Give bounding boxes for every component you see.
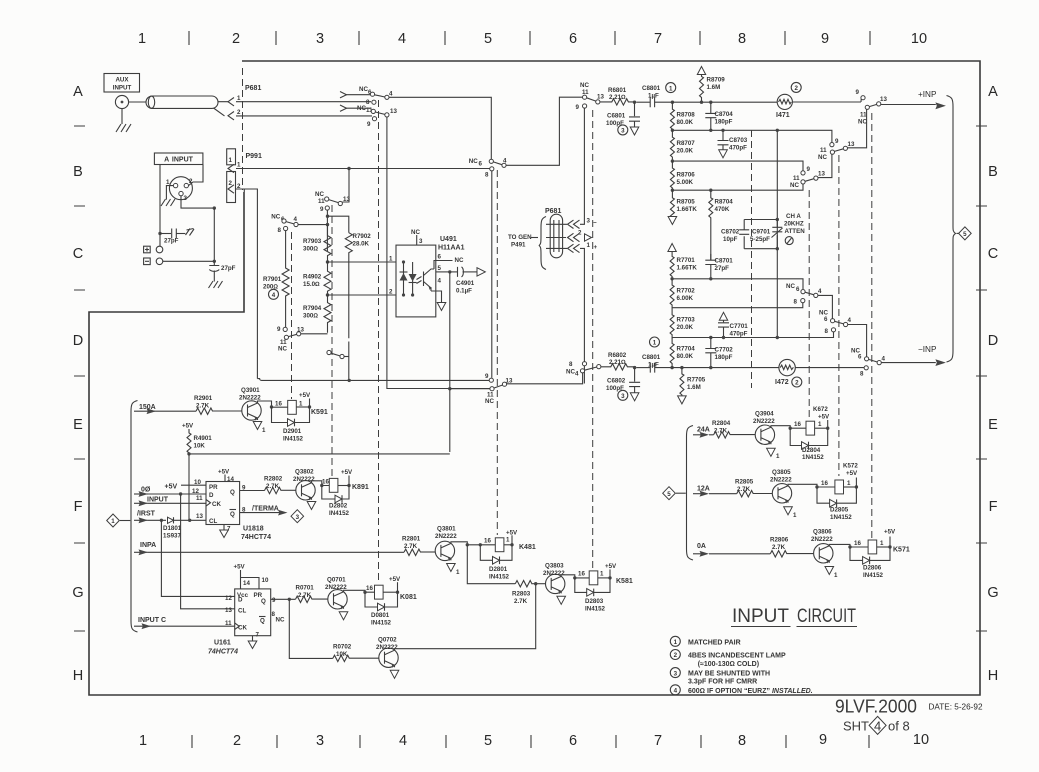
- svg-text:NC: NC: [276, 617, 285, 624]
- BNC connector J (aux input): [115, 95, 145, 108]
- svg-text:9: 9: [367, 121, 371, 128]
- svg-text:A INPUT: A INPUT: [164, 157, 194, 164]
- U161 pin7 ground: [248, 632, 259, 649]
- capacitor C8801 1uF (matched, bottom): [636, 354, 672, 373]
- node top attenuator: [671, 101, 674, 104]
- switch S (tap B, 9/11NC/13): [790, 154, 832, 189]
- svg-text:0A: 0A: [697, 543, 706, 550]
- svg-text:9: 9: [819, 732, 827, 748]
- svg-text:CL: CL: [209, 518, 217, 525]
- diode D2804 IN4152: [790, 428, 828, 461]
- svg-text:470K: 470K: [715, 206, 730, 213]
- P681 pin2 NC: [568, 230, 592, 242]
- capacitor C7702 180pF: [705, 336, 733, 368]
- U491 phototransistor: [417, 269, 435, 291]
- relay actuation dashed line to K081: [378, 100, 380, 584]
- svg-text:+: +: [594, 244, 598, 251]
- svg-text:+5V: +5V: [341, 469, 353, 476]
- resistor R7902 28.0K: [345, 233, 371, 339]
- svg-text:4: 4: [272, 292, 276, 299]
- grid column numbers bottom: [139, 732, 929, 749]
- -INP output arrow: [881, 345, 946, 366]
- capacitor C8702 10pF: [721, 220, 749, 249]
- svg-text:8: 8: [825, 328, 829, 335]
- svg-text:9: 9: [320, 206, 324, 213]
- svg-text:11: 11: [860, 112, 867, 119]
- label U161 74HCT74: [208, 640, 238, 656]
- wire to lamp I472: [672, 367, 779, 369]
- resistor R7705 1.6M to ground: [678, 366, 706, 404]
- svg-text:20KHZ: 20KHZ: [784, 221, 804, 228]
- svg-text:1.66TK: 1.66TK: [677, 206, 698, 213]
- incandescent lamp I472: [709, 359, 795, 386]
- svg-text:8: 8: [366, 99, 370, 106]
- svg-text:1: 1: [653, 340, 657, 347]
- svg-text:2.7K: 2.7K: [404, 543, 418, 550]
- svg-text:IN4152: IN4152: [329, 510, 350, 517]
- svg-text:16: 16: [821, 480, 828, 487]
- capacitor C8801 1uF (matched): [636, 85, 672, 107]
- svg-text:1µF: 1µF: [648, 93, 659, 100]
- ground at Q3801 emitter: [447, 564, 460, 577]
- svg-text:D2901: D2901: [283, 428, 302, 435]
- svg-text:P491: P491: [511, 242, 526, 249]
- capacitor C6802 100pF to ground: [606, 368, 640, 401]
- svg-text:1: 1: [674, 639, 678, 646]
- svg-text:R2803: R2803: [512, 591, 531, 598]
- svg-text:5: 5: [438, 265, 442, 272]
- /TERMA output arrow: [240, 506, 288, 516]
- svg-text:4: 4: [874, 719, 881, 734]
- note flag circled 1 (bottom): [650, 337, 660, 347]
- label TO GEN P491: [508, 234, 538, 249]
- trimmer network C8702/C9701: [744, 218, 779, 251]
- svg-text:5.00K: 5.00K: [677, 179, 694, 186]
- transistor Q3805 2N2222: [770, 469, 792, 503]
- svg-text:6: 6: [858, 354, 862, 361]
- svg-text:1: 1: [776, 453, 780, 460]
- svg-text:U161: U161: [214, 640, 231, 647]
- svg-text:D2805: D2805: [830, 507, 849, 514]
- svg-text:D: D: [73, 333, 83, 349]
- svg-text:U1818: U1818: [243, 526, 264, 533]
- svg-text:16: 16: [484, 538, 491, 545]
- svg-text:2N2222: 2N2222: [293, 476, 315, 483]
- wire XLR pin2 to box: [189, 165, 204, 186]
- svg-text:C8704: C8704: [715, 111, 734, 118]
- svg-text:180pF: 180pF: [715, 119, 733, 126]
- svg-text:R2802: R2802: [264, 476, 283, 483]
- grid tick marks bottom: [192, 735, 869, 748]
- svg-text:1: 1: [793, 512, 797, 519]
- svg-text:K581: K581: [616, 578, 633, 585]
- svg-text:2.21Ω: 2.21Ω: [609, 94, 626, 101]
- svg-text:1: 1: [600, 571, 604, 578]
- svg-text:3: 3: [587, 218, 591, 225]
- ground (chassis) below BNC: [116, 109, 131, 132]
- svg-text:2N2222: 2N2222: [376, 644, 398, 651]
- svg-text:1: 1: [389, 256, 393, 263]
- svg-text:4: 4: [399, 733, 407, 749]
- svg-text:DATE: 5-26-92: DATE: 5-26-92: [929, 703, 983, 712]
- svg-text:+5V: +5V: [605, 563, 617, 570]
- switch S (-side tap D, NC6/4/8): [672, 283, 832, 319]
- svg-text:11: 11: [820, 147, 827, 154]
- relay actuation dashed line to K672: [808, 190, 810, 420]
- svg-text:2: 2: [795, 380, 799, 387]
- svg-text:4: 4: [575, 371, 579, 378]
- svg-text:0.1µF: 0.1µF: [456, 288, 472, 295]
- node R6802/C6802: [633, 366, 636, 369]
- transistor Q3901 2N2222: [239, 387, 261, 421]
- ground at Q3805 emitter: [784, 507, 797, 519]
- resistor R6801 2.21ohm: [600, 87, 636, 105]
- svg-text:9: 9: [272, 597, 276, 604]
- diode D2806 IN4152: [850, 547, 890, 579]
- svg-text:Q3801: Q3801: [437, 526, 456, 533]
- svg-text:R7901: R7901: [263, 276, 282, 283]
- rail to U161 D: [161, 520, 234, 596]
- relay coil K581: [589, 563, 633, 585]
- svg-text:8: 8: [278, 227, 282, 234]
- rail to U161 CL: [181, 494, 235, 609]
- svg-text:K891: K891: [352, 484, 369, 491]
- U491 pin6 NC: [434, 254, 464, 270]
- node line A (80K tap): [671, 129, 832, 143]
- svg-text:1: 1: [847, 480, 851, 487]
- svg-text:20.0K: 20.0K: [677, 148, 694, 155]
- svg-text:4: 4: [848, 317, 852, 324]
- sense flag diamond 5: [957, 227, 972, 240]
- svg-text:16: 16: [366, 585, 373, 592]
- switch S (P681-2 routing): [340, 105, 490, 389]
- note flag circled 3 (bottom): [618, 390, 628, 400]
- svg-text:Q0702: Q0702: [378, 637, 397, 644]
- resistor chain R7903 300ohm: [303, 225, 331, 262]
- relay coil K571: [868, 529, 910, 554]
- svg-text:13: 13: [390, 108, 397, 115]
- svg-text:2.7K: 2.7K: [196, 403, 210, 410]
- svg-text:1: 1: [834, 572, 838, 579]
- svg-text:/TERMA: /TERMA: [252, 506, 279, 513]
- svg-text:2.21Ω: 2.21Ω: [609, 359, 626, 366]
- svg-text:C7702: C7702: [715, 347, 734, 354]
- optocoupler U1491 box: [396, 236, 465, 317]
- svg-text:Q3901: Q3901: [241, 387, 260, 394]
- svg-text:INPUT: INPUT: [147, 497, 169, 504]
- resistor R7901 200ohm: [263, 231, 289, 328]
- resistor R7703 20.0K: [670, 308, 695, 339]
- capacitor C7701 470pF from arrow: [718, 312, 748, 339]
- svg-text:K571: K571: [893, 547, 910, 554]
- resistor R7704 80.0K: [670, 338, 695, 367]
- svg-text:R8707: R8707: [677, 140, 696, 147]
- svg-text:3: 3: [419, 238, 423, 245]
- svg-text:4: 4: [674, 688, 678, 695]
- svg-text:1: 1: [880, 540, 884, 547]
- wire XLR pin3 to shield node: [181, 196, 214, 208]
- svg-text:IN4152: IN4152: [283, 436, 304, 443]
- svg-text:600Ω IF OPTION “EURZ” INSTALL: 600Ω IF OPTION “EURZ” INSTALLED.: [688, 688, 813, 695]
- svg-text:C6801: C6801: [607, 113, 626, 120]
- svg-text:300Ω: 300Ω: [303, 313, 318, 320]
- svg-text:5: 5: [484, 733, 492, 749]
- svg-text:NC: NC: [315, 191, 324, 198]
- svg-text:Q0701: Q0701: [327, 577, 346, 584]
- svg-text:12: 12: [225, 595, 232, 602]
- relay actuation dashed line to K481: [496, 170, 498, 535]
- svg-text:+5V: +5V: [182, 423, 194, 430]
- svg-text:4: 4: [294, 216, 298, 223]
- sense flag diamond 3: [291, 510, 304, 523]
- svg-text:INPUT: INPUT: [113, 85, 132, 92]
- svg-text:D2803: D2803: [585, 598, 604, 605]
- U491 internal LED pair: [400, 260, 417, 296]
- svg-text:3: 3: [674, 670, 678, 677]
- svg-text:1: 1: [587, 242, 591, 249]
- signal 150A input arrow: [134, 404, 196, 414]
- svg-text:NC: NC: [485, 398, 494, 405]
- relay actuation dashed line to K591: [291, 232, 293, 399]
- node R6801/C6801: [633, 101, 636, 104]
- resistor R8707 20.0K: [670, 130, 695, 161]
- svg-text:13: 13: [818, 171, 825, 178]
- flip-flop U1818 74HCT74: [192, 469, 271, 542]
- left signal bundle brace: [131, 401, 138, 633]
- wire Q3904 collector to relay K672: [771, 421, 806, 430]
- svg-text:74HCT74: 74HCT74: [208, 649, 238, 656]
- diode D2803 IN4152: [575, 578, 610, 613]
- transistor Q3802 2N2222: [293, 469, 315, 501]
- svg-text:300Ω: 300Ω: [303, 246, 318, 253]
- svg-text:C8702: C8702: [721, 229, 740, 236]
- svg-text:1: 1: [138, 31, 146, 47]
- capacitor C6801 100pF to ground: [606, 102, 640, 135]
- svg-text:CK: CK: [238, 625, 247, 632]
- svg-text:3.3pF FOR HF CMRR: 3.3pF FOR HF CMRR: [688, 678, 757, 685]
- capacitor C8701 27pF: [705, 254, 733, 279]
- Q output to R2802: [240, 490, 265, 492]
- switch S (P681-1 routing): [340, 86, 491, 159]
- sense flag diamond 5 (left): [663, 487, 686, 500]
- svg-text:R0702: R0702: [333, 644, 352, 651]
- ground at Q3904 emitter: [767, 448, 780, 460]
- diode D2801 IN4152: [480, 545, 512, 581]
- terminal +: [144, 246, 163, 253]
- svg-text:1N4152: 1N4152: [802, 454, 824, 461]
- svg-text:16: 16: [322, 479, 329, 486]
- svg-text:INPUT: INPUT: [732, 605, 789, 627]
- svg-text:9LVF.2000: 9LVF.2000: [835, 697, 917, 717]
- ground at Q0702 emitter: [390, 670, 399, 678]
- svg-text:R7904: R7904: [303, 305, 322, 312]
- svg-text:10: 10: [911, 31, 927, 47]
- svg-text:2.7K: 2.7K: [266, 483, 280, 490]
- svg-text:1: 1: [506, 537, 510, 544]
- svg-text:R7702: R7702: [677, 288, 696, 295]
- switch S (-INP select, NC6/4/8): [795, 348, 885, 378]
- node line B (20K tap): [671, 159, 803, 170]
- +INP output arrow: [881, 90, 946, 109]
- svg-text:B: B: [988, 164, 998, 180]
- svg-text:8: 8: [569, 361, 573, 368]
- wire U491 output row: [257, 379, 489, 382]
- node to U491 pin1: [326, 256, 396, 264]
- ground at Q0701 emitter: [339, 612, 348, 620]
- svg-text:4: 4: [818, 288, 822, 295]
- title INPUT CIRCUIT: [731, 605, 857, 627]
- svg-text:P681: P681: [245, 85, 261, 92]
- svg-text:R8706: R8706: [677, 172, 696, 179]
- svg-text:13: 13: [880, 96, 887, 103]
- transistor Q3803 2N2222: [543, 563, 565, 595]
- node bottom attenuator: [670, 366, 673, 369]
- P991 pin arrows: [228, 162, 241, 194]
- svg-text:4: 4: [503, 158, 507, 165]
- svg-text:8: 8: [794, 299, 798, 306]
- svg-text:D2801: D2801: [489, 566, 508, 573]
- svg-text:Q3802: Q3802: [295, 469, 314, 476]
- relay coil K672: [806, 406, 830, 435]
- svg-text:27pF: 27pF: [715, 265, 730, 272]
- svg-text:CK: CK: [212, 501, 221, 508]
- svg-text:2: 2: [794, 85, 798, 92]
- trimmer capacitor C9701 5-25pF: [750, 220, 783, 249]
- relay actuation dashed line to K571: [871, 113, 873, 538]
- note flag circled 4: [269, 289, 279, 299]
- svg-text:R8704: R8704: [715, 199, 734, 206]
- svg-text:MATCHED PAIR: MATCHED PAIR: [688, 639, 741, 646]
- wire from contact 13 down: [387, 117, 490, 389]
- svg-text:IN4152: IN4152: [489, 574, 510, 581]
- wire lamp to +INP switch: [792, 101, 861, 103]
- svg-text:C7701: C7701: [730, 323, 749, 330]
- svg-text:3: 3: [316, 31, 324, 47]
- svg-text:+5V: +5V: [218, 469, 230, 476]
- svg-text:9: 9: [821, 31, 829, 47]
- svg-text:H: H: [73, 668, 83, 684]
- resistor R2805 2.7K: [735, 479, 772, 497]
- wire P991-2 to shield/low rails: [236, 189, 257, 379]
- svg-text:7: 7: [256, 632, 260, 639]
- svg-text:D2802: D2802: [329, 503, 348, 510]
- note flag circled 1: [666, 83, 676, 93]
- Q output node: [271, 598, 296, 601]
- border frame of schematic sheet: [89, 61, 980, 695]
- svg-text:9: 9: [835, 138, 839, 145]
- svg-text:+5V: +5V: [884, 529, 896, 536]
- svg-text:of 8: of 8: [888, 719, 910, 734]
- svg-text:NC: NC: [469, 158, 478, 165]
- capacitor C4901 0.1uF: [452, 267, 478, 295]
- svg-text:2: 2: [674, 652, 678, 659]
- grid tick marks top: [189, 31, 870, 45]
- attenuator section dashed line: [751, 130, 753, 388]
- svg-text:3: 3: [316, 733, 324, 749]
- flip-flop U161 74HCT74: [225, 589, 285, 636]
- svg-text:MAY BE SHUNTED WITH: MAY BE SHUNTED WITH: [688, 671, 770, 678]
- svg-text:28.0K: 28.0K: [353, 241, 370, 248]
- svg-text:PR: PR: [209, 484, 218, 491]
- ground at Q3806 emitter: [825, 567, 838, 580]
- svg-text:R2804: R2804: [712, 420, 731, 427]
- diode D2901 IN4152: [272, 407, 310, 443]
- svg-text:C: C: [73, 246, 83, 262]
- resistor R2803 2.7K: [512, 581, 546, 606]
- svg-text:27pF: 27pF: [164, 238, 179, 245]
- svg-text:11: 11: [225, 620, 232, 627]
- sense flag diamond 1: [107, 514, 131, 527]
- connector boundary dashed line P681/P991: [242, 68, 244, 190]
- svg-text:6: 6: [569, 31, 577, 47]
- relay coil K481: [495, 530, 536, 552]
- svg-text:14: 14: [243, 580, 250, 587]
- node line D: [670, 277, 803, 289]
- svg-text:K572: K572: [843, 463, 858, 470]
- resistor R2804 2.7K: [712, 420, 756, 438]
- svg-text:5: 5: [963, 231, 967, 238]
- svg-text:2: 2: [237, 109, 241, 116]
- svg-text:/IRST: /IRST: [137, 511, 156, 518]
- svg-text:+5V: +5V: [389, 576, 401, 583]
- XLR connector (A input): [166, 177, 193, 202]
- svg-text:27pF: 27pF: [221, 265, 236, 272]
- svg-text:Q: Q: [261, 598, 266, 605]
- svg-text:2N2222: 2N2222: [811, 536, 833, 543]
- svg-text:ATTEN: ATTEN: [785, 228, 806, 235]
- svg-text:NC: NC: [455, 257, 464, 264]
- svg-text:D: D: [988, 333, 998, 349]
- svg-text:11: 11: [196, 495, 203, 502]
- resistor R2806 2.7K: [770, 537, 813, 558]
- svg-text:1S937: 1S937: [163, 533, 181, 540]
- svg-text:2N2222: 2N2222: [770, 477, 792, 484]
- svg-text:F: F: [989, 499, 998, 515]
- svg-text:4: 4: [398, 31, 406, 47]
- svg-text:NC: NC: [580, 82, 589, 89]
- svg-text:100pF: 100pF: [606, 120, 624, 127]
- svg-text:NC: NC: [818, 154, 827, 161]
- svg-text:K591: K591: [311, 409, 328, 416]
- svg-text:A: A: [73, 84, 83, 100]
- signal 0 phase input arrow: [134, 484, 206, 497]
- svg-text:G: G: [72, 585, 83, 601]
- svg-text:CH A: CH A: [786, 213, 801, 220]
- relay coil K081: [375, 576, 417, 601]
- svg-text:470pF: 470pF: [730, 331, 748, 338]
- switch S (A-input attenuator select, NC6/4/8): [469, 97, 583, 378]
- wire Q3803 collector to relay K581: [561, 571, 589, 580]
- svg-text:R2901: R2901: [194, 395, 213, 402]
- ground at Q3803 emitter: [557, 596, 566, 604]
- switch S (bottom input, 8/NC/4): [566, 361, 601, 378]
- svg-text:6: 6: [796, 286, 800, 293]
- relay actuation dashed line to K572: [838, 155, 840, 476]
- svg-text:1: 1: [237, 95, 241, 102]
- P991 connector housing: [227, 149, 262, 203]
- svg-text:470pF: 470pF: [729, 145, 747, 152]
- svg-text:C8701: C8701: [715, 258, 734, 265]
- svg-text:K672: K672: [813, 406, 828, 413]
- U491 pin4 emitter to ground: [431, 278, 446, 311]
- svg-text:2: 2: [232, 31, 240, 47]
- wire Q0702 collector to Q3803 base row: [395, 584, 536, 649]
- relay coil K591: [288, 392, 328, 416]
- label CH A 20KHZ ATTEN: [784, 213, 805, 235]
- svg-text:3: 3: [296, 514, 300, 521]
- wire P681-1: [236, 101, 371, 103]
- svg-text:1: 1: [299, 401, 303, 408]
